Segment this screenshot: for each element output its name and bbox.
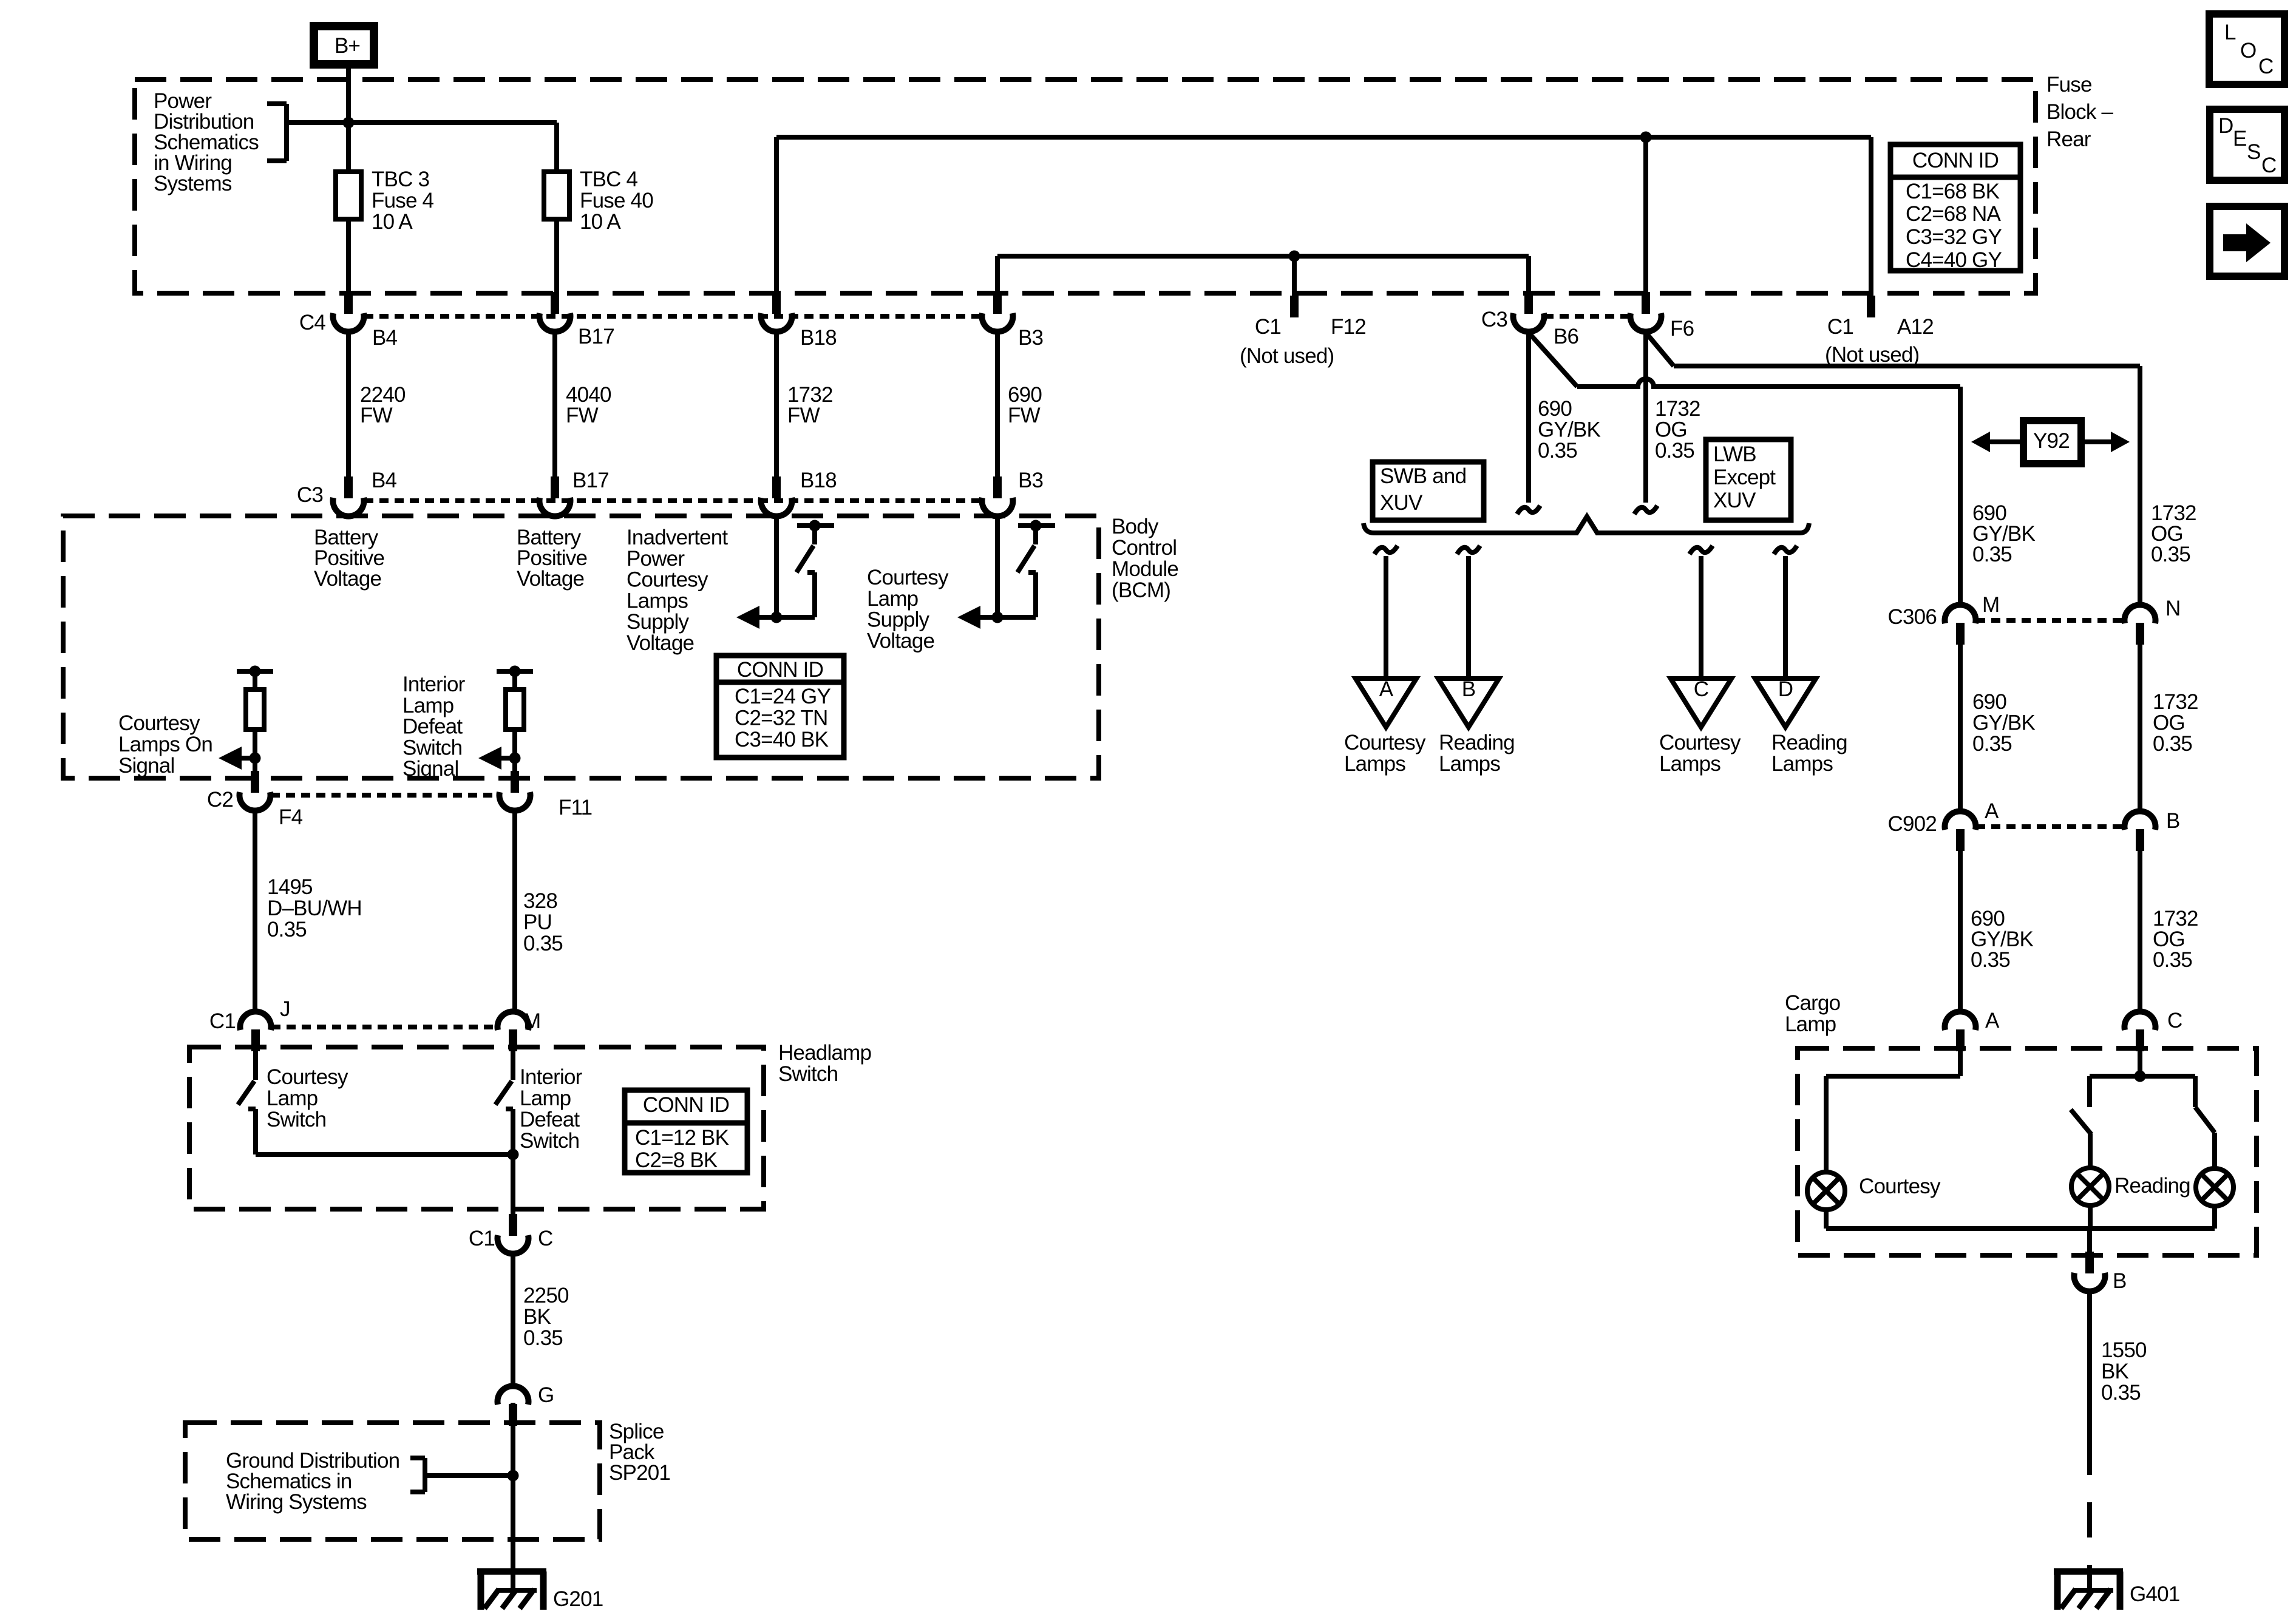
connector C902 pin B: [2136, 829, 2144, 851]
svg-text:(Not used): (Not used): [1240, 344, 1334, 368]
wire 1732 OG vertical to N: [2138, 366, 2142, 607]
node F12 tap junction: [1289, 251, 1300, 262]
svg-text:LWB: LWB: [1713, 442, 1756, 466]
wire 690 GY/BK vertical to M: [1958, 387, 1963, 607]
wire 1732 between C306 C902: [2138, 645, 2142, 813]
svg-text:Signal: Signal: [402, 757, 459, 781]
connector cargo pin B: [2085, 1252, 2094, 1273]
option curl LWB wire end: [1634, 506, 1657, 514]
svg-text:BK: BK: [523, 1305, 551, 1329]
svg-text:Defeat: Defeat: [402, 715, 463, 739]
connector C1 pin C: [509, 1214, 517, 1236]
wire resistor to junction: [512, 730, 517, 758]
wire reading lamps to bus: [2088, 1205, 2093, 1229]
node switch output junction: [992, 612, 1004, 623]
svg-text:SP201: SP201: [609, 1461, 670, 1485]
connector row BCM inputs dashed line: [364, 498, 982, 503]
off-page triangle A: [1356, 679, 1416, 727]
connector pin B3 BCM: [993, 476, 1002, 498]
wire F6 diagonal to 1732 OG: [1646, 333, 1674, 366]
wire fuse block feed to B18: [776, 135, 1871, 140]
switch fixed contact bar: [797, 523, 834, 528]
svg-text:F12: F12: [1331, 315, 1366, 339]
option curl branch B: [1457, 546, 1480, 554]
wire A into cargo: [1958, 1050, 1963, 1076]
node switch pivot: [1030, 520, 1042, 532]
svg-text:2250: 2250: [523, 1284, 569, 1307]
svg-text:Supply: Supply: [867, 608, 930, 632]
wire branch D: [1783, 556, 1788, 681]
off-page triangle D: [1755, 679, 1816, 727]
pin A12 not used stub: [1867, 296, 1875, 317]
svg-text:Voltage: Voltage: [627, 631, 694, 655]
lamp courtesy cargo: [1807, 1172, 1845, 1210]
svg-text:C1=24 GY: C1=24 GY: [735, 685, 830, 708]
wire branch B: [1466, 556, 1471, 681]
svg-text:Block –: Block –: [2046, 100, 2114, 124]
fuse TBC 4 Fuse 40 10A: [544, 172, 569, 219]
option curl SWB wire end: [1517, 506, 1540, 514]
box LWB Except XUV: [1706, 439, 1791, 520]
wire 690 GY/BK horizontal with hop: [1577, 379, 1960, 387]
svg-text:C4: C4: [299, 311, 325, 334]
svg-text:B6: B6: [1554, 325, 1578, 348]
arrow signal out: [736, 606, 759, 629]
arrow signal: [492, 756, 515, 761]
svg-text:C3=40 BK: C3=40 BK: [735, 728, 829, 751]
switch lower contact: [1028, 570, 1036, 575]
svg-text:Headlamp: Headlamp: [778, 1041, 871, 1065]
wire reading feed bar: [2090, 1074, 2195, 1079]
svg-text:C3: C3: [1481, 308, 1507, 331]
legend next-page arrow box: [2210, 206, 2284, 276]
svg-text:CONN ID: CONN ID: [643, 1093, 729, 1117]
svg-text:0.35: 0.35: [2101, 1381, 2141, 1405]
wire circuit 328: [512, 810, 517, 1014]
svg-text:FW: FW: [566, 404, 599, 427]
svg-text:Wiring Systems: Wiring Systems: [226, 1490, 367, 1514]
svg-text:Courtesy: Courtesy: [627, 568, 708, 592]
table CONN ID BCM: [716, 656, 844, 758]
svg-text:Lamp: Lamp: [402, 694, 453, 717]
svg-text:C2=8 BK: C2=8 BK: [635, 1148, 718, 1172]
svg-text:L: L: [2224, 21, 2236, 44]
wire resistor to junction: [253, 730, 257, 758]
svg-text:Fuse 40: Fuse 40: [580, 189, 653, 212]
svg-text:CONN ID: CONN ID: [737, 658, 823, 682]
arrow signal out: [957, 606, 980, 629]
wire cargo ground bus: [1826, 1226, 2215, 1231]
wire C into cargo: [2138, 1050, 2142, 1076]
wire bracket to B+ junction: [287, 120, 348, 125]
svg-text:CONN ID: CONN ID: [1912, 149, 1999, 172]
connector row BCM outputs dashed line: [271, 793, 499, 798]
box SWB and XUV: [1373, 462, 1484, 520]
wire courtesy lamp to bus: [1824, 1210, 1829, 1229]
svg-text:XUV: XUV: [1380, 491, 1423, 515]
switch stub: [812, 526, 817, 544]
node switch pivot: [809, 520, 821, 532]
wire to resistor: [253, 671, 257, 690]
fuse TBC 3 Fuse 4 10A: [336, 172, 361, 219]
wire dashed to G401: [2087, 1440, 2092, 1571]
svg-text:A: A: [1985, 799, 1999, 823]
svg-text:OG: OG: [1655, 418, 1687, 442]
svg-text:Body: Body: [1112, 515, 1159, 538]
svg-text:G401: G401: [2130, 1582, 2179, 1606]
wire branch C: [1699, 556, 1703, 681]
wire 690 between C306 C902: [1958, 645, 1963, 813]
connector C3 pin B6: [1524, 292, 1533, 314]
node headlamp switch junction: [508, 1149, 519, 1161]
svg-text:Lamps: Lamps: [1439, 752, 1500, 776]
wire F6 down to LWB branch: [1643, 331, 1648, 503]
svg-text:(Not used): (Not used): [1825, 343, 1919, 367]
wire into switch: [253, 1050, 258, 1080]
svg-text:Interior: Interior: [402, 673, 466, 696]
node cargo reading junction: [2135, 1071, 2146, 1082]
svg-text:Fuse: Fuse: [2046, 73, 2092, 97]
option curl branch D: [1774, 546, 1797, 554]
svg-text:C4=40 GY: C4=40 GY: [1906, 248, 2002, 272]
svg-text:10 A: 10 A: [372, 210, 413, 234]
connector row headlamp switch dashed line: [271, 1025, 497, 1029]
svg-text:C1=68 BK: C1=68 BK: [1906, 180, 2000, 203]
svg-text:C1: C1: [1827, 315, 1853, 339]
svg-text:Lamps: Lamps: [1659, 752, 1720, 776]
svg-text:1495: 1495: [267, 875, 313, 899]
svg-text:Reading: Reading: [1771, 731, 1847, 754]
svg-text:C1: C1: [469, 1227, 495, 1250]
wire circuit 690 FW: [995, 331, 1000, 479]
connector pin B18: [772, 292, 781, 314]
wire to connector C1/C: [511, 1154, 515, 1214]
svg-text:Switch: Switch: [520, 1129, 579, 1153]
svg-text:C3=32 GY: C3=32 GY: [1906, 225, 2002, 249]
svg-text:Lamp: Lamp: [867, 587, 918, 611]
svg-text:Switch: Switch: [267, 1108, 326, 1131]
splice pack dashed box: [185, 1423, 600, 1539]
connector pin B17: [551, 292, 559, 314]
wire junction down to F6: [1643, 137, 1648, 292]
svg-text:0.35: 0.35: [2153, 948, 2192, 972]
wire circuit 2240 FW: [346, 331, 351, 479]
svg-text:0.35: 0.35: [2151, 543, 2190, 566]
svg-text:J: J: [280, 997, 290, 1021]
svg-text:(BCM): (BCM): [1112, 578, 1170, 602]
legend DESC box: [2210, 109, 2284, 180]
wire tap down to A12: [1869, 137, 1873, 292]
svg-text:B17: B17: [572, 469, 609, 492]
svg-text:XUV: XUV: [1713, 489, 1756, 512]
svg-text:B3: B3: [1018, 469, 1043, 492]
svg-text:Defeat: Defeat: [520, 1108, 580, 1131]
connector C1 pin J: [251, 1029, 260, 1051]
switch reading right: [2193, 1076, 2198, 1107]
svg-text:Fuse 4: Fuse 4: [372, 189, 434, 212]
svg-text:D–BU/WH: D–BU/WH: [267, 897, 362, 920]
off-page triangle C: [1671, 679, 1731, 727]
switch blade: [238, 1081, 254, 1105]
wire junction down to F12 stub: [1292, 256, 1297, 296]
connector pin B17 BCM: [551, 476, 559, 498]
svg-text:Cargo: Cargo: [1785, 991, 1840, 1015]
wire B+ to TBC4 fuse: [348, 120, 557, 125]
svg-text:690: 690: [1972, 690, 2006, 714]
svg-text:A12: A12: [1897, 315, 1934, 339]
wire right end down to B6: [1526, 256, 1531, 292]
svg-text:0.35: 0.35: [1972, 543, 2012, 566]
connector C4 pin B4: [344, 292, 353, 314]
svg-text:Y92: Y92: [2033, 429, 2070, 453]
svg-text:SWB and: SWB and: [1380, 464, 1466, 488]
wire B6 diagonal to 690 GY/BK: [1529, 333, 1577, 387]
switch blade: [796, 546, 813, 572]
svg-text:PU: PU: [523, 910, 552, 934]
svg-text:B18: B18: [800, 469, 837, 492]
table CONN ID fuse block rear: [1890, 144, 2020, 271]
svg-text:B: B: [2166, 809, 2180, 833]
wire B6 down to SWB branch: [1526, 331, 1531, 503]
svg-text:0.35: 0.35: [1971, 948, 2010, 972]
svg-text:Interior: Interior: [520, 1065, 583, 1089]
wire BCM input to switch: [995, 516, 1000, 617]
svg-text:Lamps: Lamps: [1771, 752, 1833, 776]
svg-text:Signal: Signal: [118, 754, 175, 778]
svg-text:Systems: Systems: [154, 172, 232, 195]
cargo lamp dashed box: [1798, 1048, 2257, 1255]
svg-text:0.35: 0.35: [523, 1326, 563, 1350]
component Y92 dual arrow box: [2023, 421, 2081, 464]
bracket ground distribution reference: [410, 1456, 425, 1460]
svg-text:Module: Module: [1112, 557, 1178, 581]
svg-text:Switch: Switch: [402, 736, 462, 759]
svg-text:B18: B18: [800, 326, 837, 350]
svg-text:F6: F6: [1670, 317, 1694, 341]
switch reading left: [2087, 1076, 2092, 1107]
svg-text:D: D: [1778, 677, 1793, 701]
svg-text:Lamp: Lamp: [520, 1086, 571, 1110]
connector pin B18 BCM: [772, 476, 781, 498]
svg-text:C1=12 BK: C1=12 BK: [635, 1126, 729, 1150]
ground G201: [477, 1568, 546, 1575]
svg-text:BK: BK: [2101, 1360, 2129, 1383]
wire 1732 to cargo lamp: [2138, 851, 2142, 1014]
svg-text:Lamps: Lamps: [627, 589, 688, 612]
connector cargo pin A: [1956, 1029, 1965, 1051]
table CONN ID headlamp switch: [625, 1090, 747, 1173]
ground G401: [2054, 1568, 2123, 1575]
svg-text:N: N: [2165, 597, 2180, 620]
off-page triangle B: [1438, 679, 1499, 727]
wire fuse TBC4 to connector B17: [554, 219, 559, 292]
svg-text:328: 328: [523, 889, 557, 913]
svg-text:C2=68 NA: C2=68 NA: [1906, 202, 2002, 226]
svg-text:Rear: Rear: [2046, 127, 2091, 151]
svg-text:Courtesy: Courtesy: [867, 566, 949, 589]
bracket power distribution reference: [267, 101, 287, 106]
connector pin F11: [511, 771, 519, 793]
switch blade: [495, 1081, 512, 1105]
wire 690 to cargo lamp: [1958, 851, 1963, 1014]
svg-text:B: B: [1462, 677, 1476, 701]
svg-text:Lamps On: Lamps On: [118, 733, 212, 756]
switch lower contact: [807, 570, 815, 575]
wire to resistor: [512, 671, 517, 690]
svg-text:Reading: Reading: [2114, 1174, 2190, 1198]
arrow signal: [233, 756, 255, 761]
node signal junction: [250, 753, 261, 764]
connector C306 pin M: [1956, 623, 1965, 645]
wire B+ stem: [346, 69, 351, 172]
svg-text:B+: B+: [335, 34, 360, 58]
switch lower contact: [248, 1107, 256, 1111]
connector C3 pin B4 BCM: [344, 476, 353, 498]
svg-text:C902: C902: [1888, 812, 1937, 836]
wire circuit 1550 BK: [2087, 1290, 2092, 1440]
wire BCM input to switch: [774, 516, 779, 617]
wire switch outputs joined: [256, 1152, 513, 1157]
wire through splice pack: [511, 1403, 515, 1571]
svg-text:B: B: [2113, 1269, 2127, 1293]
headlamp switch dashed box: [189, 1047, 764, 1209]
svg-text:E: E: [2233, 127, 2247, 151]
svg-text:C: C: [2258, 55, 2273, 78]
svg-text:B3: B3: [1018, 326, 1043, 350]
pin F12 not used stub: [1290, 296, 1299, 317]
svg-text:B4: B4: [372, 326, 398, 350]
svg-text:Supply: Supply: [627, 610, 690, 634]
svg-text:1550: 1550: [2101, 1338, 2147, 1362]
connector C2 pin F4: [251, 771, 259, 793]
node resistor top bar: [237, 669, 273, 674]
resistor pull-up: [246, 690, 264, 730]
svg-text:Power: Power: [627, 547, 685, 571]
lamp reading left: [2071, 1168, 2109, 1205]
switch blade: [1017, 546, 1034, 572]
power B+ terminal box: [314, 26, 374, 64]
svg-text:C2=32 TN: C2=32 TN: [735, 707, 827, 730]
connector pin B3: [993, 292, 1002, 314]
svg-text:0.35: 0.35: [523, 932, 563, 955]
svg-text:A: A: [1985, 1009, 2000, 1032]
wire into switch: [511, 1050, 515, 1080]
svg-text:C: C: [2167, 1009, 2182, 1032]
svg-text:TBC 4: TBC 4: [580, 168, 638, 191]
connector row C306 dashed line: [1976, 618, 2124, 623]
svg-text:F4: F4: [279, 805, 303, 829]
svg-text:A: A: [1379, 677, 1394, 701]
connector C306 pin N: [2136, 623, 2144, 645]
wire junction to connector: [512, 758, 517, 773]
svg-text:Courtesy: Courtesy: [267, 1065, 348, 1089]
node switch output junction: [771, 612, 783, 623]
wire bus down to B: [2087, 1229, 2092, 1252]
node B+ junction: [343, 117, 355, 129]
wire switch output: [759, 615, 815, 620]
svg-text:Voltage: Voltage: [314, 567, 381, 591]
svg-text:Courtesy: Courtesy: [1344, 731, 1426, 754]
svg-text:Lamp: Lamp: [1785, 1012, 1836, 1036]
svg-text:O: O: [2240, 39, 2256, 63]
svg-text:G201: G201: [553, 1587, 603, 1611]
wire circuit 1732 FW: [774, 331, 779, 479]
svg-text:0.35: 0.35: [1655, 439, 1694, 463]
node signal junction: [509, 753, 521, 764]
svg-text:M: M: [523, 1009, 540, 1033]
wire circuit 1495: [253, 810, 257, 1014]
svg-text:Voltage: Voltage: [867, 629, 934, 653]
svg-text:FW: FW: [360, 404, 393, 427]
svg-text:Inadvertent: Inadvertent: [627, 526, 728, 549]
wire fuse TBC3 to connector C4/B4: [346, 219, 351, 292]
node splice SP201: [508, 1470, 519, 1482]
connector pin M: [509, 1029, 517, 1051]
svg-text:S: S: [2247, 140, 2261, 164]
svg-text:B17: B17: [578, 325, 614, 348]
node resistor top bar: [497, 669, 533, 674]
svg-text:C: C: [1694, 677, 1708, 701]
wire fuse block feed to B3: [997, 254, 1529, 259]
connector pin G splice: [509, 1404, 517, 1426]
svg-text:690: 690: [1538, 397, 1572, 421]
svg-text:Reading: Reading: [1439, 731, 1515, 754]
svg-text:OG: OG: [2153, 711, 2185, 735]
svg-text:Except: Except: [1713, 466, 1776, 489]
wire bracket to splice: [425, 1473, 513, 1478]
wire branch A: [1384, 556, 1388, 681]
svg-text:GY/BK: GY/BK: [1538, 418, 1600, 442]
option curl branch A: [1374, 546, 1398, 554]
wire circuit 4040 FW: [552, 331, 557, 479]
svg-text:Switch: Switch: [778, 1062, 838, 1086]
svg-text:1732: 1732: [1655, 397, 1700, 421]
connector row fuse block outputs dashed line: [364, 314, 982, 319]
fuse block rear dashed box: [135, 80, 2036, 293]
svg-text:Voltage: Voltage: [517, 567, 584, 591]
connector pin F6: [1642, 292, 1650, 314]
svg-text:0.35: 0.35: [1538, 439, 1577, 463]
svg-text:C: C: [2261, 154, 2276, 177]
svg-text:TBC 3: TBC 3: [372, 168, 429, 191]
svg-text:Courtesy: Courtesy: [1659, 731, 1741, 754]
svg-text:FW: FW: [1008, 404, 1041, 427]
svg-text:C: C: [538, 1227, 552, 1250]
svg-text:C3: C3: [297, 483, 323, 507]
svg-text:M: M: [1982, 593, 1999, 617]
svg-text:GY/BK: GY/BK: [1972, 711, 2035, 735]
svg-text:10 A: 10 A: [580, 210, 621, 234]
svg-text:F11: F11: [559, 796, 592, 819]
switch stub: [1033, 526, 1038, 544]
svg-text:Courtesy: Courtesy: [118, 711, 200, 735]
legend LOC box: [2209, 14, 2284, 84]
wire junction to connector: [253, 758, 257, 773]
svg-text:Lamps: Lamps: [1344, 752, 1405, 776]
resistor pull-up: [506, 690, 524, 730]
body control module dashed box: [63, 516, 1099, 778]
svg-text:Lamp: Lamp: [267, 1086, 318, 1110]
svg-text:0.35: 0.35: [2153, 732, 2192, 756]
svg-text:Control: Control: [1112, 536, 1177, 560]
option curl branch C: [1690, 546, 1713, 554]
svg-text:C306: C306: [1888, 605, 1937, 629]
svg-text:C1: C1: [1255, 315, 1281, 339]
wire circuit 2250 BK: [511, 1253, 515, 1388]
connector row C902 dashed line: [1976, 824, 2124, 829]
brace harness split: [1364, 517, 1809, 533]
svg-text:C2: C2: [207, 788, 233, 812]
